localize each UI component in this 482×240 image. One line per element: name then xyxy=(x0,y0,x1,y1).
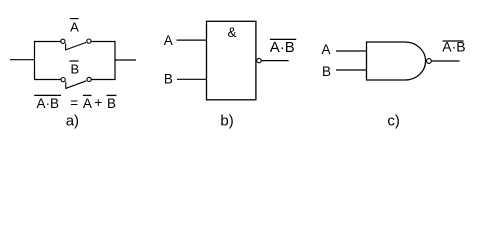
svg-text:&: & xyxy=(228,25,237,40)
label: sub-figure b) xyxy=(220,112,233,129)
svg-text:=: = xyxy=(70,95,78,110)
svg-text:A: A xyxy=(83,96,92,111)
switch B blade (open) xyxy=(66,81,87,89)
svg-text:B: B xyxy=(164,71,173,86)
inversion bubble at U1 output xyxy=(257,58,261,62)
wire: figure a bottom branch left segment xyxy=(34,79,61,81)
label Bbar above switch B xyxy=(70,61,80,77)
svg-text:B: B xyxy=(322,64,331,79)
label: input B of IEC gate xyxy=(164,71,173,86)
svg-text:a): a) xyxy=(66,112,79,129)
label: input A of NAND gate xyxy=(322,42,331,57)
svg-text:B: B xyxy=(70,62,79,77)
svg-text:A·B: A·B xyxy=(37,96,60,111)
label: input B of NAND gate xyxy=(322,64,331,79)
wire: U1 output lead xyxy=(261,60,288,62)
wire: figure a left junction vertical xyxy=(34,41,36,80)
wire: input B to NAND gate xyxy=(336,69,367,71)
wire: figure a left lead xyxy=(10,59,35,61)
AND gate U1 IEC rectangle body xyxy=(207,21,256,100)
label: overline(A.B) at U1 output xyxy=(270,39,297,56)
switch A blade (open) xyxy=(66,42,87,50)
svg-text:+: + xyxy=(94,95,102,110)
switch contact A left terminal xyxy=(61,39,65,43)
label: input A of IEC gate xyxy=(164,33,173,48)
svg-text:B: B xyxy=(107,96,116,111)
equation: overline(A.B) = overline(A) + overline(B) xyxy=(34,95,116,111)
switch contact A right terminal xyxy=(87,39,91,43)
svg-text:c): c) xyxy=(387,112,400,129)
wire: input B to IEC gate xyxy=(177,78,207,80)
svg-text:A: A xyxy=(322,42,331,57)
svg-text:A·B: A·B xyxy=(270,39,295,56)
label: sub-figure c) xyxy=(387,112,400,129)
wire: figure a bottom branch right segment xyxy=(91,79,115,81)
label Abar above switch A xyxy=(70,19,79,35)
switch contact B left terminal xyxy=(61,78,65,82)
svg-text:A: A xyxy=(164,33,173,48)
wire: figure a right lead xyxy=(115,59,136,61)
wire: figure a top branch right segment xyxy=(91,41,115,43)
wire: figure a right junction vertical xyxy=(114,41,116,80)
inversion bubble at U2 output xyxy=(427,59,432,64)
NAND gate U2 distinctive-shape body xyxy=(367,42,426,80)
switch contact B right terminal xyxy=(87,77,91,81)
svg-text:A: A xyxy=(70,20,79,35)
wire: input A to NAND gate xyxy=(336,50,367,52)
label: sub-figure a) xyxy=(66,112,79,129)
svg-text:b): b) xyxy=(220,112,233,129)
label: overline(A.B) at U2 output xyxy=(442,39,465,55)
wire: U2 output lead xyxy=(431,60,459,62)
wire: figure a top branch left segment xyxy=(34,41,61,43)
label: ampersand function symbol inside U1 xyxy=(228,25,237,40)
wire: input A to IEC gate xyxy=(177,39,208,41)
